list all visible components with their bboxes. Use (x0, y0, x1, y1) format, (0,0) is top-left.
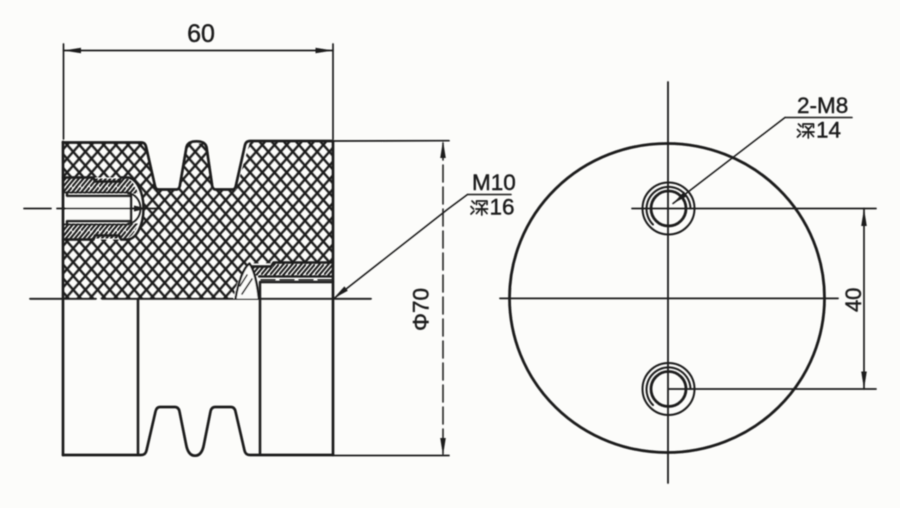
body right edge (332, 142, 335, 455)
M10 bore outline (66, 196, 131, 222)
bottom M8 hole (643, 363, 695, 415)
M8 thread major line (261, 279, 333, 281)
bottom hole extension line (669, 388, 877, 390)
top hole extension line (632, 208, 876, 210)
main horizontal centerline of left view (30, 298, 371, 300)
svg-text:Φ70: Φ70 (409, 288, 434, 331)
dimension 60: arrowheads (64, 48, 334, 54)
M10 hole axis line (24, 208, 160, 210)
M8 hole (right face, sectioned upper half): insert outline (250, 263, 333, 267)
top M8 hole (643, 183, 695, 235)
body left edge (62, 142, 65, 455)
leaf inner hatch lines (240, 275, 252, 294)
label M10 leader (334, 195, 468, 299)
label 2-M8 underline (785, 117, 852, 119)
M8 insert closed-end leaf (234, 263, 260, 298)
vertical centerline (667, 82, 669, 483)
M10 insert: outer outline (63, 178, 144, 240)
svg-text:16: 16 (490, 195, 515, 220)
M10 pocket inner dome (128, 194, 141, 224)
M8 bore outline (260, 282, 333, 299)
horizontal centerline (500, 297, 838, 299)
svg-text:2-M8: 2-M8 (797, 93, 848, 118)
label shen16 text (471, 195, 515, 220)
dimension 40: dimension line (863, 209, 865, 390)
hatched rubber body section (upper half) (63, 142, 333, 299)
body outline upper profile (63, 141, 333, 190)
M10 insert: sectioned metal single hatch (top strip) (63, 179, 138, 194)
svg-text:M10: M10 (472, 170, 516, 195)
dimension phi70: extension lines (333, 141, 449, 456)
dimension phi70: dimension line (442, 143, 444, 454)
groove edge line B (lower half) (259, 300, 262, 454)
dimension 40: arrowheads (861, 209, 867, 390)
dimension phi70: arrowheads (440, 141, 446, 456)
dimension 60: extension lines (64, 44, 334, 139)
M10 drill point wedge (134, 206, 143, 212)
label shen14 text (798, 118, 842, 143)
groove edge line A (lower half) (137, 300, 140, 454)
body outline lower profile (exterior silhouette with grooves) (63, 407, 333, 456)
M10 thread major dia lines (64, 193, 129, 225)
dimension 60: dimension line (64, 50, 334, 52)
M8 insert single hatch strip (252, 264, 332, 276)
label 2-M8 leader (673, 118, 785, 204)
svg-text:14: 14 (816, 118, 841, 143)
svg-text:40: 40 (841, 288, 866, 312)
main circle (510, 144, 825, 453)
M8 insert lower boundary (259, 275, 333, 277)
label M10 underline (468, 194, 512, 196)
M10 insert: sectioned metal single hatch (bottom strip) (63, 224, 138, 239)
svg-text:60: 60 (187, 20, 215, 48)
